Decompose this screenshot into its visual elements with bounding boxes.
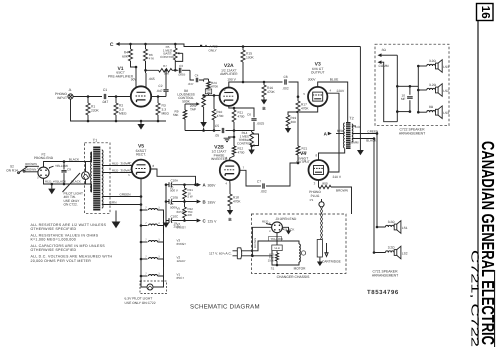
resistor R4 68K <box>130 44 132 49</box>
svg-text:C5: C5 <box>215 124 219 128</box>
svg-text:OUTPUT: OUTPUT <box>311 71 325 75</box>
resistor R23 motor network <box>276 251 278 253</box>
svg-text:CONTROL: CONTROL <box>237 142 252 146</box>
node A arrow at T2 center tap <box>336 133 345 135</box>
svg-text:6.3V PILOT LIGHT: 6.3V PILOT LIGHT <box>125 297 153 301</box>
svg-text:B: B <box>203 200 206 205</box>
svg-text:3.2Ω: 3.2Ω <box>429 59 436 63</box>
svg-text:C7: C7 <box>257 180 261 184</box>
capacitor C7 .002 <box>263 183 264 188</box>
resistor R6 47K <box>145 44 147 49</box>
dashed box C722 speaker arrangement <box>375 44 449 126</box>
svg-text:C3: C3 <box>179 64 183 68</box>
svg-text:GREEN: GREEN <box>119 192 130 196</box>
svg-text:20,000 OHMS PER VOLT METER: 20,000 OHMS PER VOLT METER <box>31 259 92 263</box>
svg-text:C721, C722: C721, C722 <box>468 250 480 347</box>
resistor R18 470K <box>229 180 231 194</box>
svg-text:RED: RED <box>337 129 344 133</box>
node B arrow 195V <box>197 200 201 204</box>
sidebar vertical rule <box>477 21 479 346</box>
resistor R12 4700 <box>233 137 235 146</box>
node A arrow 300V <box>197 183 201 187</box>
capacitor C9 line filter <box>63 162 65 170</box>
svg-text:6V6GT: 6V6GT <box>177 225 187 229</box>
svg-text:RED: RED <box>45 180 52 184</box>
svg-text:4700: 4700 <box>238 150 245 154</box>
svg-text:C10C: C10C <box>171 214 180 218</box>
svg-text:800: 800 <box>322 181 327 185</box>
wire V1 plate leads <box>136 67 146 87</box>
svg-text:500 V: 500 V <box>170 189 178 193</box>
capacitor C4 .047 series <box>190 70 194 80</box>
svg-text:S1: S1 <box>271 267 275 271</box>
svg-text:ONLY: ONLY <box>209 48 217 52</box>
wire P2 top black to T1 <box>44 162 85 168</box>
svg-text:56K: 56K <box>173 113 179 117</box>
svg-text:350VAC: 350VAC <box>121 161 133 165</box>
resistor R10 4700 <box>213 95 215 109</box>
svg-text:BLUE: BLUE <box>330 78 339 82</box>
svg-text:350VAC: 350VAC <box>121 168 133 172</box>
svg-text:300V: 300V <box>308 78 317 82</box>
ground stub at treble junction <box>228 131 234 138</box>
svg-text:2 W: 2 W <box>188 195 193 199</box>
resistor R24 470K <box>207 82 211 90</box>
resistor R2 3.3 MEG <box>115 97 117 104</box>
wire J3 left brown <box>252 227 271 256</box>
ground symbol under V1 <box>140 121 142 124</box>
resistor R20 10 ohm 2W <box>184 185 186 188</box>
resistor R1 220K <box>87 97 89 104</box>
tap box loudness <box>205 89 211 94</box>
svg-text:ARRANGEMENT: ARRANGEMENT <box>372 274 398 278</box>
wire green to LS1 <box>377 134 386 228</box>
capacitor 10 MF crossover <box>407 97 413 98</box>
tube V2A 1/2 12AX7 amplifier <box>220 88 238 106</box>
svg-text:3.2Ω: 3.2Ω <box>388 245 395 249</box>
wire to LS2 C722 <box>418 89 427 91</box>
sidebar page number box 16 <box>477 4 494 21</box>
resistor R16 470K <box>263 82 265 85</box>
capacitor C2 .047 <box>165 92 167 97</box>
svg-text:6X5GT: 6X5GT <box>177 210 187 214</box>
svg-text:6V6GT: 6V6GT <box>177 242 187 246</box>
svg-text:K=1,000 MEG=1,000,000: K=1,000 MEG=1,000,000 <box>31 238 76 242</box>
svg-text:LS2: LS2 <box>443 89 449 93</box>
motor coil <box>299 244 300 262</box>
svg-text:.0055: .0055 <box>178 72 186 76</box>
svg-text:47K: 47K <box>149 57 154 61</box>
wire ground rail under V1 <box>71 99 167 121</box>
heater chain wire <box>163 226 165 243</box>
ground arrow under treble pot <box>251 145 253 149</box>
svg-text:470K: 470K <box>301 107 309 111</box>
svg-text:CARTRIDGE: CARTRIDGE <box>322 260 341 264</box>
svg-text:.047: .047 <box>102 100 109 104</box>
svg-text:CHANGER CHASSIS: CHANGER CHASSIS <box>277 275 311 279</box>
svg-text:OTHERWISE SPECIFIED: OTHERWISE SPECIFIED <box>31 227 77 231</box>
node C arrow 125V <box>197 219 201 223</box>
wire V5 cathode B+ out <box>150 169 195 185</box>
svg-text:BROWN: BROWN <box>254 238 257 248</box>
wire bass network to coupling line <box>146 61 159 70</box>
ground arrow under loudness pot <box>203 107 205 122</box>
svg-text:2W: 2W <box>188 213 193 217</box>
wire to LS1 C722 <box>418 65 427 67</box>
wire V2A plate line 190V <box>229 82 283 88</box>
svg-text:BROWN: BROWN <box>336 189 348 193</box>
resistor R22 750 ohm 2W <box>184 202 186 208</box>
tube V1 6SC7 pre-amplifier <box>131 86 151 106</box>
svg-text:C6: C6 <box>247 113 251 117</box>
node B arrow under R16 <box>263 97 265 100</box>
svg-text:ON R14: ON R14 <box>6 168 18 172</box>
resistor R3 3.3 MEG <box>151 96 166 98</box>
svg-text:220K: 220K <box>91 109 100 113</box>
svg-text:190 V: 190 V <box>227 77 236 81</box>
wire V3 plate to T2 blue lead <box>318 82 348 122</box>
svg-text:MOTOR: MOTOR <box>294 267 307 271</box>
wire C722 crossover verticals <box>396 55 398 122</box>
svg-text:220V: 220V <box>337 89 346 93</box>
wire T2 secondary green lead <box>352 133 377 135</box>
wire T2 secondary 8 ohm tap <box>352 125 356 127</box>
svg-text:MF: MF <box>401 97 406 101</box>
svg-text:INPUT: INPUT <box>57 96 67 100</box>
svg-text:RED: RED <box>112 168 119 172</box>
speaker LS1 3.2 ohm <box>386 225 395 227</box>
svg-text:.002: .002 <box>282 86 288 90</box>
potentiometer R14 1 MEG treble control <box>234 131 252 133</box>
comm terminal arrow below T2 <box>359 47 361 151</box>
svg-text:250K: 250K <box>268 260 274 263</box>
switch box S2-B <box>272 245 282 251</box>
wire T1 secondary red 350VAC top <box>102 165 132 167</box>
pilot light lamp <box>82 172 90 180</box>
speaker LS2 3.2 ohm <box>386 251 395 253</box>
capacitor C8 .002 <box>285 79 286 84</box>
capacitor C6 .0025 cathode bypass <box>234 108 254 117</box>
svg-text:3-2Ω: 3-2Ω <box>429 83 437 87</box>
svg-text:R7: R7 <box>163 64 167 68</box>
svg-text:.002: .002 <box>260 189 266 193</box>
wire J3 bottom to switch network <box>276 233 278 245</box>
svg-text:195V: 195V <box>208 201 217 205</box>
svg-text:SCHEMATIC DIAGRAM: SCHEMATIC DIAGRAM <box>190 303 260 310</box>
wire V4 cathode resistor 800 ohm <box>318 180 321 187</box>
heater V4 6V6GT <box>140 224 143 227</box>
svg-text:4700: 4700 <box>217 114 224 118</box>
svg-text:BROWN: BROWN <box>25 162 37 166</box>
svg-text:CONTROL: CONTROL <box>160 55 175 59</box>
wire V2B plate to C7 <box>240 170 261 186</box>
svg-text:.047: .047 <box>156 89 162 93</box>
svg-text:C10B: C10B <box>171 195 179 199</box>
heater V3 6V6GT <box>140 241 143 244</box>
svg-text:12AX7: 12AX7 <box>177 259 186 263</box>
svg-text:BROWN: BROWN <box>25 168 37 172</box>
wire AC plug to motor circuit <box>242 241 299 251</box>
speaker LS3 C722 <box>427 110 436 112</box>
ground arrow below T1 <box>115 211 117 222</box>
wire loudness to V2A grid <box>204 94 220 96</box>
svg-text:C4: C4 <box>195 73 199 77</box>
capacitor C5 .05 <box>211 130 221 132</box>
svg-text:300: 300 <box>291 120 296 124</box>
svg-text:USE ONLY ON C722: USE ONLY ON C722 <box>125 301 156 305</box>
node B arrow under R18 <box>229 206 231 210</box>
note triangle C722 only <box>205 45 208 47</box>
svg-text:300V: 300V <box>208 184 217 188</box>
svg-text:500K: 500K <box>182 99 190 103</box>
svg-text:T1: T1 <box>93 139 97 143</box>
wire input to V1 grid <box>73 96 131 98</box>
svg-text:3.2Ω: 3.2Ω <box>388 220 395 224</box>
svg-text:T8534796: T8534796 <box>367 289 399 296</box>
svg-text:INVERTER: INVERTER <box>211 157 228 161</box>
wire S2 to P2 plug brown <box>25 165 39 167</box>
svg-text:OUTPUT: OUTPUT <box>296 160 310 164</box>
svg-text:BLACK: BLACK <box>366 139 377 143</box>
svg-text:.047: .047 <box>188 82 194 86</box>
ground arrow filter bus <box>165 221 167 223</box>
wire V4 plate to T2 <box>319 149 345 161</box>
svg-text:LS2: LS2 <box>402 251 408 255</box>
wire T1 secondary green heater <box>102 196 141 198</box>
svg-text:125 V: 125 V <box>208 220 218 224</box>
svg-text:C8: C8 <box>283 75 287 79</box>
heater chain wire <box>163 242 165 259</box>
svg-text:68K: 68K <box>122 55 129 59</box>
svg-text:117 V. 60∿A.C.: 117 V. 60∿A.C. <box>209 252 232 256</box>
wire T1 secondary red 350VAC bottom <box>102 172 132 174</box>
cartridge <box>317 240 322 258</box>
svg-text:100K: 100K <box>246 56 255 60</box>
svg-text:OTHERWISE SPECIFIED: OTHERWISE SPECIFIED <box>31 248 77 252</box>
svg-text:J3 OPEN END: J3 OPEN END <box>275 217 297 221</box>
capacitor C3 .0055 <box>172 69 178 71</box>
dashed box pilot light 6.3V <box>140 281 167 294</box>
svg-text:PRONG END: PRONG END <box>34 156 54 160</box>
svg-text:470K: 470K <box>233 200 241 204</box>
tube V2B 1/2 12AX7 phase inverter <box>220 160 240 180</box>
svg-text:56K: 56K <box>164 72 169 76</box>
resistor R17 470K <box>297 97 299 101</box>
wire P2 bottom red black to T1 <box>44 178 85 184</box>
svg-text:4700: 4700 <box>238 114 245 118</box>
svg-text:6SC7: 6SC7 <box>177 276 185 280</box>
svg-text:GRN: GRN <box>110 200 117 204</box>
svg-text:LS3: LS3 <box>443 111 449 115</box>
tube V5 6X5GT rectifier <box>132 160 151 179</box>
svg-text:C: C <box>110 42 114 48</box>
resistor R21 220 ohm <box>297 113 299 146</box>
speaker LS2 C722 <box>427 88 436 90</box>
jack J1 phono input <box>68 94 73 99</box>
wire T1 primary leads <box>85 152 92 162</box>
svg-text:8-Ω: 8-Ω <box>355 125 361 129</box>
svg-text:.05: .05 <box>215 134 220 138</box>
svg-text:C1: C1 <box>103 88 107 92</box>
wire black to LS2 <box>374 139 386 253</box>
svg-text:LS1: LS1 <box>402 226 408 230</box>
wire V5 heater down <box>140 178 142 210</box>
svg-text:470K: 470K <box>211 85 219 89</box>
svg-text:16: 16 <box>479 6 491 19</box>
svg-text:RED: RED <box>262 220 269 224</box>
tube V3 6V6GT output <box>308 87 327 106</box>
svg-text:8Ω: 8Ω <box>429 105 434 109</box>
svg-text:C2: C2 <box>158 84 162 88</box>
svg-text:470K: 470K <box>267 90 276 94</box>
heater chain wire <box>163 259 165 276</box>
svg-text:TAP: TAP <box>206 91 211 94</box>
heater V1 6SC7 <box>140 275 143 278</box>
twisted pair to cartridge <box>320 207 323 211</box>
wire V3 screen 220V <box>327 93 339 172</box>
heater chain wire <box>163 210 165 226</box>
wire to LS3 C722 <box>418 111 427 113</box>
resistor R11 4700 V2A cathode <box>229 106 234 110</box>
heater V5 6X5GT <box>140 209 143 212</box>
svg-text:.065: .065 <box>149 77 155 81</box>
wire S2 to P2 plug brown 2 <box>25 171 38 173</box>
heater V2 12AX7 <box>140 258 143 261</box>
svg-text:T2: T2 <box>349 117 353 121</box>
svg-text:P1: P1 <box>310 198 314 202</box>
svg-text:.0025: .0025 <box>257 122 265 126</box>
wire lower rail to C5 <box>185 130 211 132</box>
svg-text:COMM: COMM <box>349 141 359 145</box>
wire T2 secondary black lead <box>352 138 374 140</box>
svg-text:C10A: C10A <box>171 179 179 183</box>
tube V4 6V6GT output <box>309 160 329 180</box>
svg-text:MEG: MEG <box>119 112 127 116</box>
svg-text:J1: J1 <box>68 88 72 92</box>
svg-text:ARRANGEMENT: ARRANGEMENT <box>399 132 425 136</box>
svg-text:MEG: MEG <box>162 112 170 116</box>
svg-text:ON C722.: ON C722. <box>64 202 78 206</box>
svg-text:52-B: 52-B <box>274 247 280 250</box>
wire T1 secondary grn <box>102 204 141 206</box>
svg-text:310 V: 310 V <box>333 175 342 179</box>
svg-text:C9: C9 <box>67 167 71 171</box>
resistor R15 100K <box>242 47 244 51</box>
svg-text:RECT.: RECT. <box>136 153 146 157</box>
heater bus left <box>140 210 142 281</box>
svg-text:TAP: TAP <box>190 108 196 112</box>
terminal arrow comm C722 <box>378 60 382 64</box>
resistor R7 56K <box>159 69 173 73</box>
ground arrow under R19 <box>287 126 289 128</box>
svg-text:AMPLIFIER: AMPLIFIER <box>220 72 238 76</box>
svg-text:RED: RED <box>112 161 119 165</box>
resistor R19 300 ohm V3 cathode <box>288 106 318 115</box>
capacitor C1 .047 <box>104 94 105 99</box>
dashed box changer chassis <box>251 214 346 273</box>
svg-text:LS1: LS1 <box>443 65 449 69</box>
svg-text:BLACK: BLACK <box>69 157 80 161</box>
sidebar rule right of ELECTRIC <box>494 270 496 347</box>
speaker LS1 C722 <box>427 64 436 66</box>
ground arrow power input <box>51 184 53 189</box>
svg-text:8Ω: 8Ω <box>382 48 387 52</box>
filter cap bus <box>165 185 167 221</box>
